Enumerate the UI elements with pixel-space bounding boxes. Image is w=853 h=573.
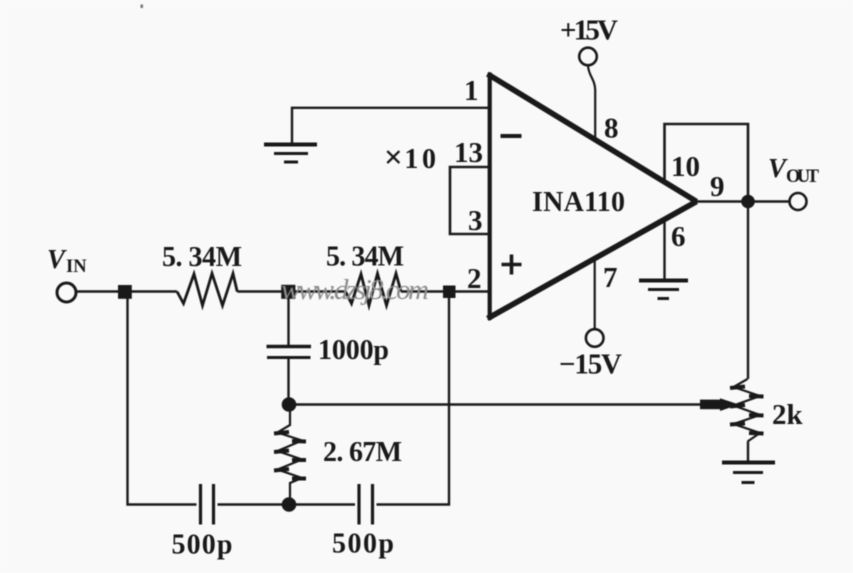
resistor R1 5.34M (177, 274, 237, 306)
label 1000p (318, 335, 389, 366)
svg-text:3: 3 (468, 205, 483, 237)
svg-text:2: 2 (467, 263, 482, 295)
wire: pin 6 to ground (663, 218, 665, 279)
capacitor C3 500p (359, 484, 373, 525)
scan speck (141, 5, 144, 9)
op-amp U1 INA110 triangle (488, 73, 697, 321)
+15V label (560, 15, 618, 47)
pin 9 label (710, 171, 725, 203)
wiper arrow of 2k (700, 398, 739, 411)
junction: node C (pin 2) (443, 286, 456, 299)
svg-text:2. 67M: 2. 67M (323, 437, 402, 468)
junction: node E (bottom) (282, 497, 297, 512)
wire: C2 to node E (218, 503, 290, 505)
wire: VIN to R1 (76, 290, 177, 292)
capacitor C1 1000p (267, 347, 312, 399)
svg-text:1: 1 (464, 75, 479, 107)
gain-set box between pins 13 and 3 (450, 167, 488, 234)
wire: +15V terminal to pin 8 (588, 66, 595, 141)
ground symbol (pin 1) (264, 145, 317, 163)
label 500p (C2) (172, 530, 233, 561)
junction: output node (741, 195, 755, 209)
potentiometer R4 2k (730, 379, 764, 442)
label 2.67M (323, 437, 402, 468)
pin 3 label (468, 205, 483, 237)
label 5.34M (R1) (162, 242, 242, 273)
wire: left branch (input node down and across) (128, 292, 197, 505)
svg-text:+15V: +15V (560, 15, 618, 47)
junction: input node (118, 285, 132, 299)
svg-text:1000p: 1000p (318, 335, 389, 366)
svg-text:×10: ×10 (384, 140, 436, 176)
svg-text:V: V (768, 153, 788, 183)
wire: pin 1 to ground (292, 108, 488, 143)
wire: 2k to ground (747, 442, 749, 462)
wire: C3 to right branch up to pin 2 node (377, 292, 450, 505)
watermark (281, 274, 429, 306)
minus sign (inverting input) (501, 134, 522, 138)
svg-text:5. 34M: 5. 34M (326, 242, 404, 273)
svg-text:500p: 500p (332, 529, 394, 560)
wire: output pin 9 to VOUT (697, 200, 790, 202)
pin 10 label (671, 151, 700, 183)
svg-text:IN: IN (66, 257, 87, 277)
+15V supply terminal (579, 48, 597, 66)
wire: output node down to 2k (747, 202, 749, 380)
wire: node E to C3 (289, 503, 355, 505)
pin 6 label (671, 221, 686, 253)
label 500p (C3) (332, 529, 394, 560)
svg-text:6: 6 (671, 221, 686, 253)
plus sign (non-inverting input) (502, 255, 522, 275)
svg-text:INA110: INA110 (532, 187, 625, 218)
pin 8 label (604, 113, 619, 145)
label VIN (47, 244, 87, 277)
op-amp label INA110 (532, 187, 625, 218)
svg-text:5. 34M: 5. 34M (162, 242, 242, 273)
svg-text:8: 8 (604, 113, 619, 145)
svg-text:www.dzsj8.com: www.dzsj8.com (281, 274, 429, 306)
svg-text:2k: 2k (772, 399, 804, 431)
svg-text:7: 7 (603, 262, 618, 294)
terminal VIN (57, 283, 76, 302)
junction: node B (top of C1) (281, 285, 295, 299)
wire: R1 to R2 (237, 290, 345, 292)
svg-text:10: 10 (671, 151, 700, 183)
ground symbol (pin 6) (639, 281, 688, 299)
svg-text:13: 13 (454, 137, 483, 169)
pin 13 label (454, 137, 483, 169)
-15V supply terminal (586, 329, 604, 347)
ground symbol (2k) (722, 463, 775, 483)
label VOUT (768, 153, 820, 187)
-15V label (559, 349, 622, 381)
junction: node D (wiper node) (282, 397, 297, 412)
svg-text:500p: 500p (172, 530, 233, 561)
terminal VOUT (790, 193, 807, 210)
wire: pin 7 to -15V terminal (594, 259, 596, 329)
feedback box: pin 10 to output (665, 124, 749, 202)
svg-text:−15V: −15V (559, 349, 622, 381)
svg-text:OUT: OUT (786, 167, 820, 187)
pin 7 label (603, 262, 618, 294)
label 2k (772, 399, 804, 431)
label 5.34M (R2) (326, 242, 404, 273)
wire: node B down to C1 (287, 292, 289, 346)
wire: node D to 2k wiper (289, 403, 706, 405)
svg-text:9: 9 (710, 171, 725, 203)
resistor R2 5.34M (346, 274, 402, 306)
pin 1 label (464, 75, 479, 107)
label x10 (384, 140, 436, 176)
capacitor C2 500p (201, 484, 214, 525)
resistor R3 2.67M (274, 405, 306, 499)
wire: R2 to pin 2 (401, 290, 488, 292)
pin 2 label (467, 263, 482, 295)
svg-text:V: V (47, 244, 67, 274)
